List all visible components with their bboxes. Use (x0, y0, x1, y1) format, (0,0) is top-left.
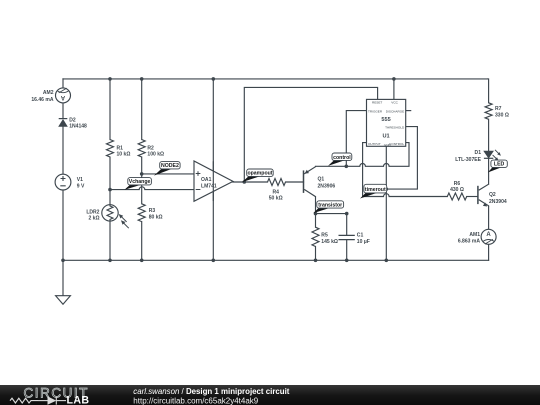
label AM2 16.46 mA (31, 90, 54, 103)
node flag LED (488, 160, 508, 172)
svg-text:VCC: VCC (391, 100, 398, 104)
junction: Vchange tee (108, 188, 112, 192)
wire: opampout to 555 RESET loop (244, 87, 377, 182)
resistor R2 (138, 140, 145, 158)
wire: op-amp output to R4 (233, 181, 268, 183)
wire: left branch top (rail to AM2) (62, 79, 64, 88)
node flag NODE2 (154, 162, 180, 176)
label R4 50 kΩ (269, 190, 283, 202)
wire: C1 to ground rail (346, 240, 348, 261)
svg-text:DISCHARGE: DISCHARGE (386, 109, 404, 113)
wire: LDR2 to ground rail (109, 221, 111, 260)
svg-text:control: control (333, 155, 351, 161)
label R3 80 kΩ (149, 208, 163, 221)
svg-text:timerout: timerout (365, 187, 386, 193)
ammeter AM1 (481, 229, 496, 244)
junction: ground stem (61, 259, 65, 263)
svg-text:R1: R1 (117, 145, 124, 151)
wire: top positive rail (63, 78, 488, 80)
footer logo resistor-diode glyph (10, 397, 66, 405)
LED D1 LTL-307EE (484, 150, 501, 161)
label AM1 6.863 mA (458, 232, 481, 245)
svg-text:Vchange: Vchange (129, 179, 151, 185)
label C1 10 µF (357, 233, 370, 246)
label R2 100 kΩ (147, 145, 164, 157)
node flag Vchange (125, 178, 152, 190)
wire: R4 to Q1 base (286, 181, 304, 183)
wire: op-amp supply column (212, 79, 214, 260)
wire: R2 to NODE2 corner (141, 157, 143, 174)
node flag opampout (242, 169, 273, 182)
label LDR2 2 kΩ (86, 209, 99, 221)
wire: op-amp supply column overlay through triangle (212, 161, 214, 201)
wire: R3 to ground rail (141, 222, 143, 261)
transistor Q2 2N3904 (478, 184, 489, 207)
wire: 555 DISCHARGE stub (406, 110, 411, 112)
label D1 LTL-307EE (455, 150, 481, 163)
IC U1 555 timer (367, 99, 406, 147)
junction: LDR2 at ground rail (108, 259, 112, 263)
wire: R5 to ground rail (315, 247, 317, 261)
svg-text:transistor: transistor (318, 202, 342, 208)
svg-text:430 Ω: 430 Ω (450, 187, 464, 193)
diode D2 1N4148 (59, 119, 68, 127)
transistor Q1 2N3906 (304, 166, 316, 197)
wire: rail down to R7 (487, 79, 490, 103)
junction: transistor node corner (345, 212, 349, 216)
wire: Q1 emitter to control node (316, 165, 347, 167)
capacitor C1 (339, 235, 355, 239)
svg-text:100 kΩ: 100 kΩ (147, 152, 164, 158)
svg-text:D1: D1 (475, 150, 482, 156)
photoresistor LDR2 (102, 205, 129, 229)
node flag timerout (360, 184, 387, 198)
label Q1 2N3906 (318, 177, 336, 190)
svg-text:OUTPUT: OUTPUT (368, 142, 381, 146)
footer bar (0, 385, 540, 405)
svg-text:U1: U1 (383, 134, 390, 140)
junction: transistor node tee (314, 212, 318, 216)
wire: Q2 emitter to AM1 (488, 206, 490, 229)
svg-text:555: 555 (381, 117, 390, 123)
svg-text:2N3906: 2N3906 (318, 183, 336, 189)
wire: Q1 collector down to R5 (315, 197, 317, 227)
junction: opampout tee (243, 180, 247, 184)
junction: R2 at top rail (140, 77, 144, 81)
svg-text:AM2: AM2 (43, 90, 54, 96)
svg-text:LED: LED (494, 162, 505, 168)
svg-text:C1: C1 (357, 233, 364, 239)
svg-text:LM741: LM741 (201, 183, 217, 189)
svg-text:LTL-307EE: LTL-307EE (455, 157, 481, 163)
svg-text:R2: R2 (147, 145, 154, 151)
wire: AM1 to ground rail (488, 244, 490, 260)
svg-text:330 Ω: 330 Ω (495, 113, 509, 119)
wire: 555 GND pin to ground rail (385, 146, 387, 260)
svg-text:OA1: OA1 (201, 177, 212, 183)
svg-text:2 kΩ: 2 kΩ (88, 216, 99, 222)
svg-text:10 µF: 10 µF (357, 239, 370, 245)
label OA1 LM741 (201, 177, 217, 189)
wire: ground rail (63, 259, 489, 261)
junction: threshold/gnd tee (385, 187, 389, 191)
svg-text:R5: R5 (321, 233, 328, 239)
junction: R5 at ground rail (314, 259, 318, 263)
wire: transistor node to C1 (316, 214, 347, 236)
wire: D2 to V1 (62, 126, 64, 174)
svg-text:LAB: LAB (67, 394, 90, 405)
wire: R1 branch from rail (109, 79, 111, 140)
svg-text:AM1: AM1 (469, 232, 480, 238)
junction: control tee (345, 165, 349, 169)
junction: op-amp supply at ground rail (212, 259, 216, 263)
wire: R2 branch from rail (141, 79, 143, 140)
wire: 555 OUTPUT pin down to timerout wire (363, 143, 367, 197)
wire: NODE2 down to R3 (141, 174, 143, 204)
resistor R4 (268, 179, 286, 186)
wire: Vchange net (inverting input, hops over R3 column) (110, 187, 194, 190)
node flag control (328, 153, 352, 166)
label R1 10 kΩ (117, 145, 131, 157)
wire: 555 VCC pin to rail (393, 79, 395, 100)
svg-text:http://circuitlab.com/c65ak2y4: http://circuitlab.com/c65ak2y4t4ak9 (133, 396, 259, 405)
svg-text:CONTROL: CONTROL (389, 142, 404, 146)
resistor R5 (312, 227, 319, 246)
wire: NODE2 net to op-amp + input (142, 173, 194, 175)
wire: AM2 to D2 (62, 103, 64, 118)
wire: timerout net to R6 (hops over GND column) (363, 194, 448, 197)
wire: R1 to LDR2 (109, 157, 111, 205)
wire: D1 cathode to Q2 collector (488, 158, 490, 184)
svg-text:carl.swanson / Design 1 minipr: carl.swanson / Design 1 miniproject circ… (133, 387, 289, 396)
svg-text:R7: R7 (495, 106, 502, 112)
resistor R6 (447, 193, 466, 200)
wire: V1 to ground rail (62, 190, 64, 260)
resistor R7 (485, 103, 492, 119)
svg-text:LDR2: LDR2 (86, 209, 99, 215)
svg-text:80 kΩ: 80 kΩ (149, 215, 163, 221)
ammeter AM2 (56, 88, 71, 103)
junction: NODE2 corner (140, 172, 144, 176)
node flag transistor (313, 201, 343, 213)
op-amp OA1 LM741 (194, 161, 233, 201)
junction: R1 at top rail (108, 77, 112, 81)
wire: R7 to D1 (488, 119, 490, 151)
svg-text:10 kΩ: 10 kΩ (117, 152, 131, 158)
voltage source V1 (55, 174, 71, 190)
wire: control node up to 555 TRIGGER (346, 111, 366, 167)
label D2 1N4148 (69, 118, 87, 130)
svg-text:6.863 mA: 6.863 mA (458, 239, 481, 245)
svg-text:Q2: Q2 (489, 192, 496, 198)
svg-text:THRESHOLD: THRESHOLD (385, 125, 405, 129)
svg-text:16.46 mA: 16.46 mA (31, 97, 54, 103)
junction: 555 VCC at top rail (392, 77, 396, 81)
node junction dots (61, 77, 396, 262)
label R5 145 kΩ (321, 233, 338, 246)
svg-text:145 kΩ: 145 kΩ (321, 239, 338, 245)
svg-text:Q1: Q1 (318, 177, 325, 183)
junction: op-amp supply at top rail (212, 77, 216, 81)
wire: 555 THRESHOLD loop (386, 127, 417, 190)
wire: ground stem (62, 260, 64, 295)
svg-text:A: A (60, 94, 65, 100)
svg-text:R6: R6 (454, 181, 461, 187)
label V1 9 V (77, 177, 85, 190)
svg-text:9 V: 9 V (77, 184, 85, 190)
svg-text:2N3904: 2N3904 (489, 199, 507, 205)
svg-text:1N4148: 1N4148 (69, 124, 87, 130)
svg-text:R3: R3 (149, 208, 156, 214)
ground symbol (56, 296, 71, 305)
svg-text:NODE2: NODE2 (161, 163, 179, 169)
wire: R6 to Q2 base (467, 196, 478, 198)
svg-text:V1: V1 (77, 177, 83, 183)
label R7 330 Ω (495, 106, 509, 119)
junction: 555 GND at ground rail (385, 259, 389, 263)
junction: R3 at ground rail (140, 259, 144, 263)
label Q2 2N3904 (489, 192, 507, 205)
svg-text:A: A (486, 232, 491, 238)
svg-text:RESET: RESET (372, 100, 382, 104)
svg-text:TRIGGER: TRIGGER (368, 109, 383, 113)
wire: control node to 555 CONTROL pin (hops over OUTPUT and GND columns) (346, 143, 409, 167)
svg-text:opampout: opampout (247, 171, 272, 177)
junction: C1 at ground rail (345, 259, 349, 263)
label R6 430 Ω (450, 181, 464, 193)
resistor R1 (107, 140, 114, 158)
svg-text:50 kΩ: 50 kΩ (269, 196, 283, 202)
resistor R3 (138, 204, 145, 222)
